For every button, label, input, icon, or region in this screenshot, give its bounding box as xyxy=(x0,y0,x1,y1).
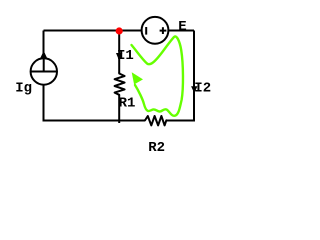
mesh loop (green freehand curve) xyxy=(132,36,183,115)
resistor R2 xyxy=(144,113,167,128)
svg-text:I2: I2 xyxy=(194,80,211,96)
wire right xyxy=(193,31,195,121)
svg-text:E: E xyxy=(178,19,186,35)
svg-text:I1: I1 xyxy=(117,48,134,64)
svg-text:R1: R1 xyxy=(119,96,136,112)
current source Ig xyxy=(31,51,57,85)
wire bottom left segment xyxy=(43,120,146,122)
svg-text:Ig: Ig xyxy=(15,80,32,96)
resistor R1 xyxy=(112,73,127,96)
wire middle branch xyxy=(118,31,120,124)
voltage source E xyxy=(142,17,169,44)
current arrow I2 xyxy=(191,86,197,93)
wire bottom right segment xyxy=(166,120,195,122)
current arrow I1 xyxy=(116,53,122,61)
wire left branch xyxy=(43,31,45,122)
node junction (red dot) xyxy=(116,27,123,34)
wire top xyxy=(44,30,195,32)
mesh loop arrowhead xyxy=(132,72,143,84)
svg-text:R2: R2 xyxy=(148,140,165,156)
